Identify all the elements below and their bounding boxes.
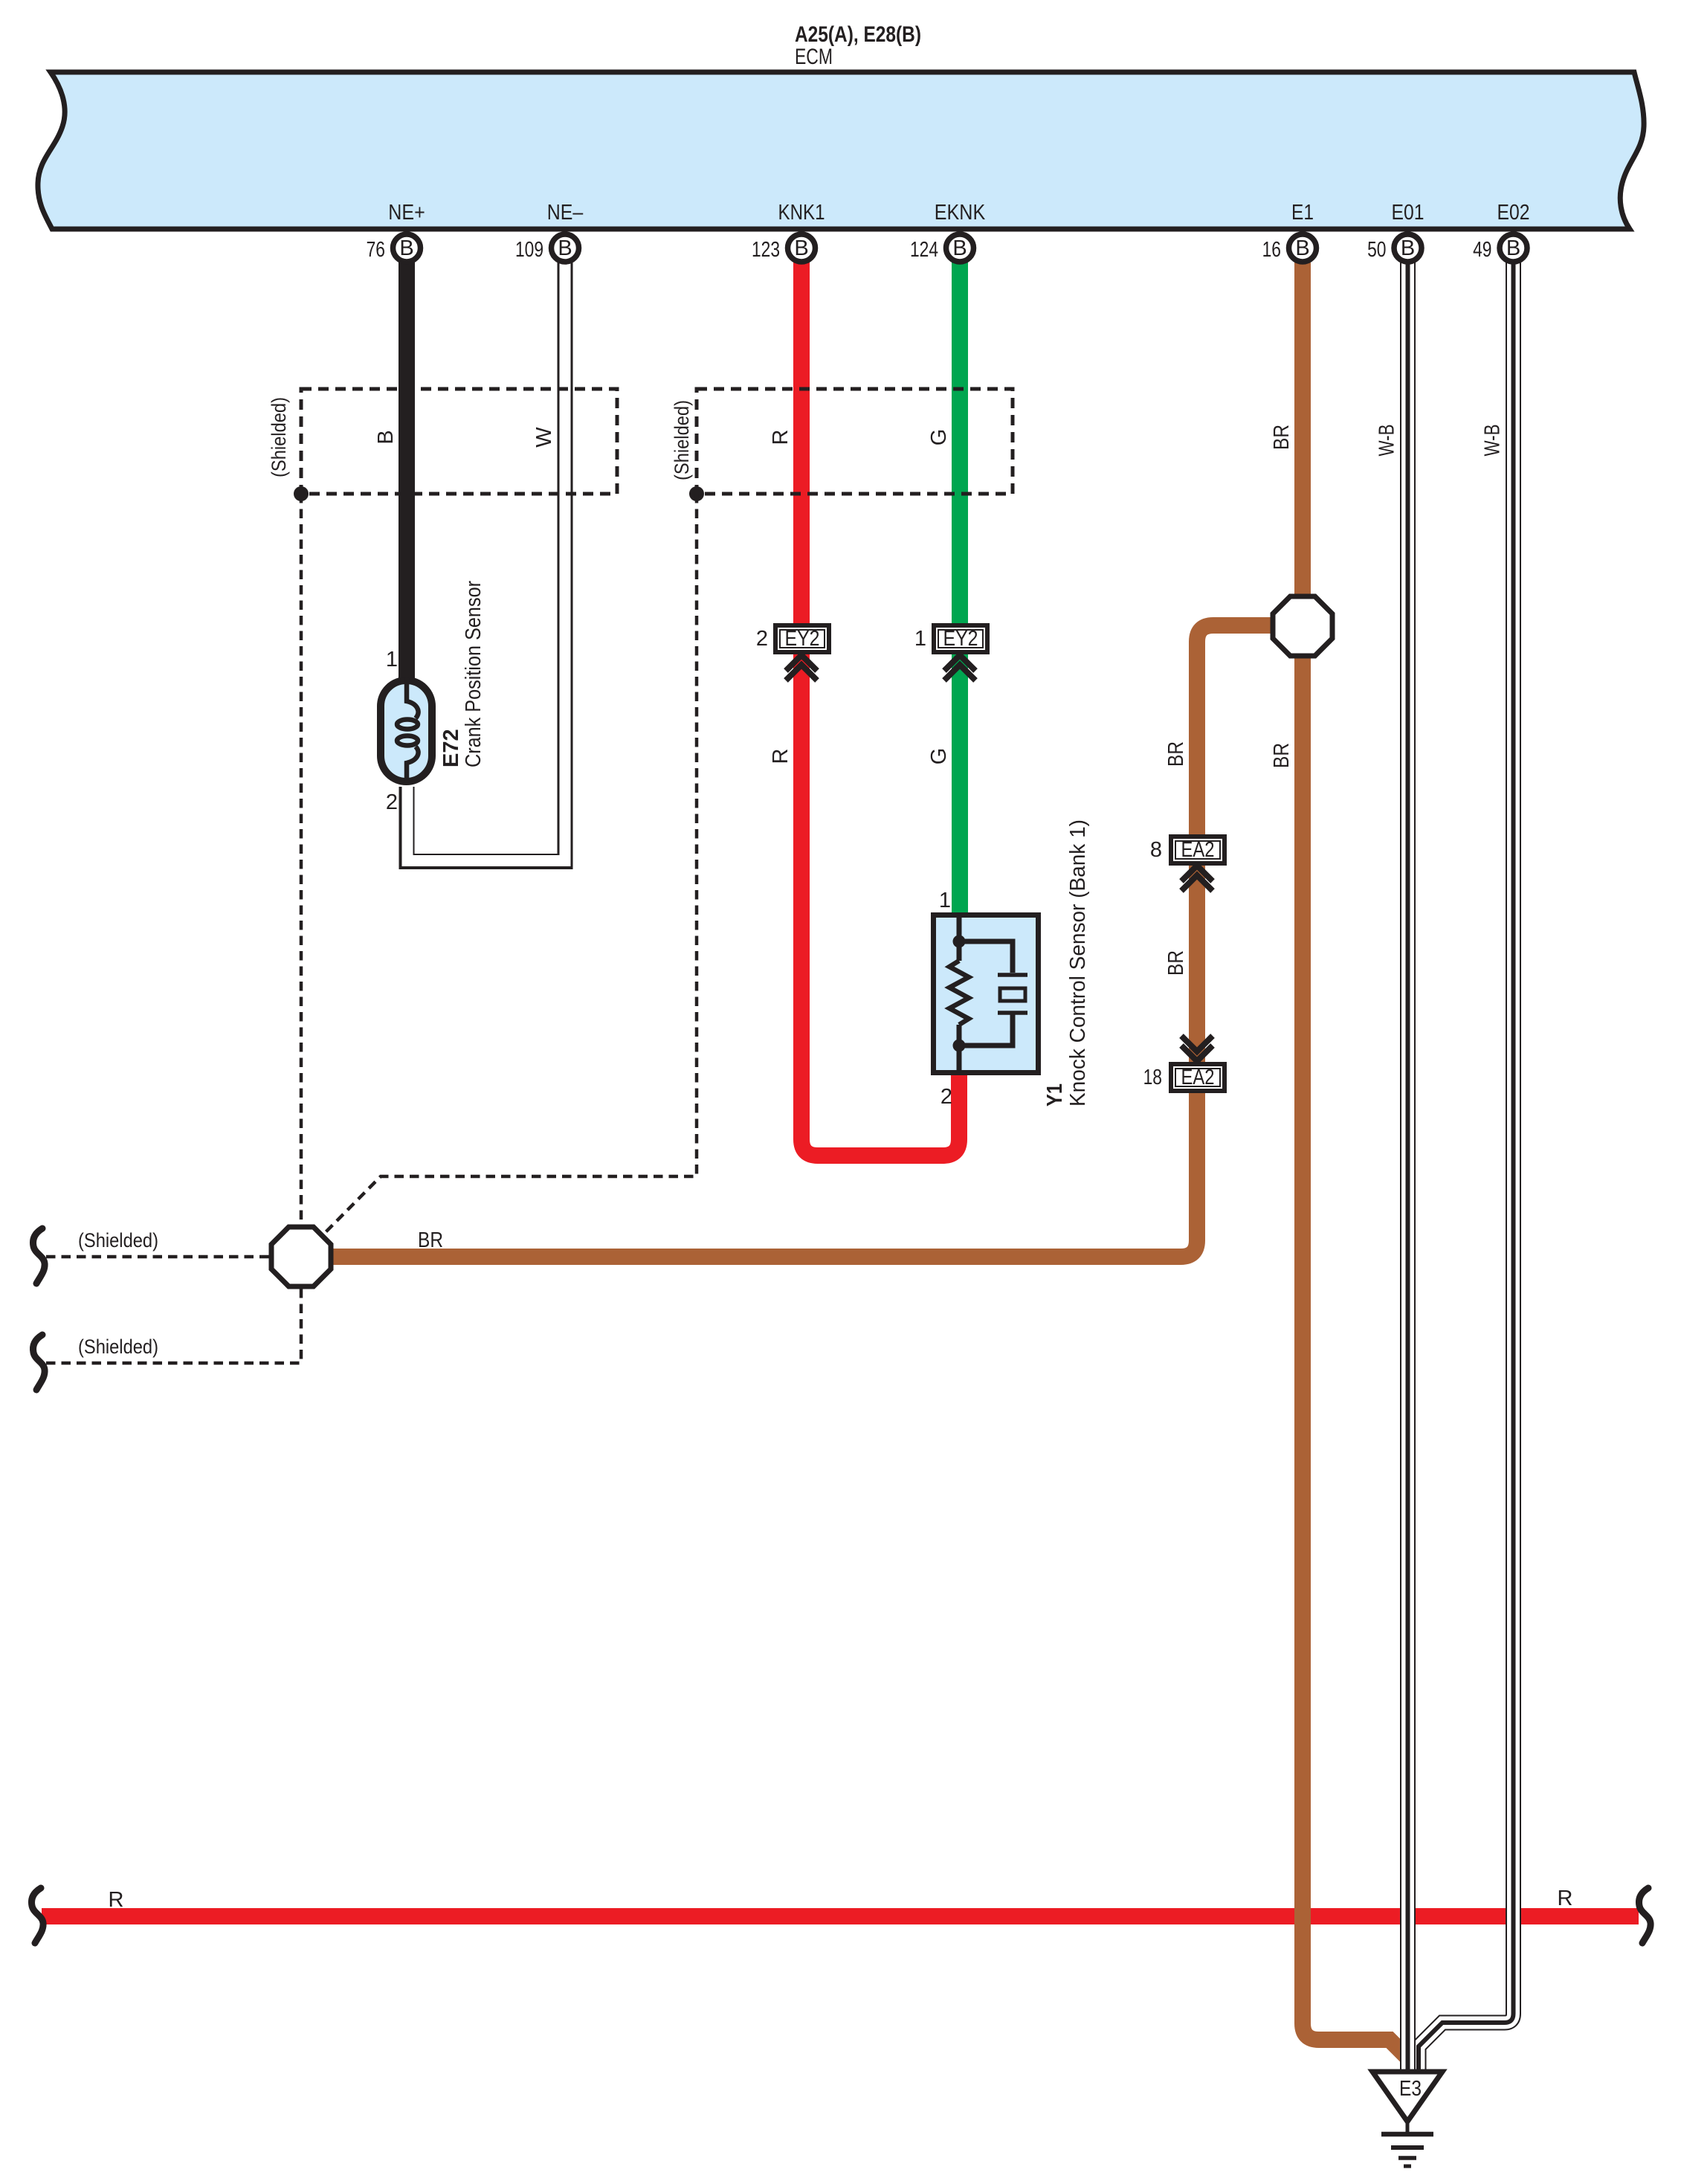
svg-text:EY2: EY2 <box>943 627 978 651</box>
svg-text:B: B <box>1295 236 1309 260</box>
ground bars <box>1381 2132 1433 2137</box>
shield box 1 (dashed) around B and W wires <box>301 389 617 494</box>
svg-text:EKNK: EKNK <box>935 201 986 225</box>
svg-text:B: B <box>1506 236 1520 260</box>
junction dot lower inside Y1 <box>953 1040 966 1052</box>
shield dashed lead upper-left with squiggle <box>46 1255 272 1259</box>
connector 8 EA2 (branch) <box>1150 837 1225 891</box>
svg-text:2: 2 <box>386 790 398 814</box>
wire R (bottom power rail) <box>42 1908 1639 1924</box>
wire E1 BR (brown) main run down to ground area <box>1303 248 1406 2056</box>
wire label G (EKNK) upper <box>927 429 951 446</box>
svg-text:49: 49 <box>1473 238 1491 262</box>
svg-text:(Shielded): (Shielded) <box>268 397 290 477</box>
wire label BR (E1) upper <box>1270 425 1294 450</box>
svg-text:B: B <box>952 236 967 260</box>
svg-text:109: 109 <box>515 238 543 262</box>
node squiggle upper shielded lead <box>33 1228 45 1283</box>
shield drain wire (dashed) from box 1 dot down to octagon <box>300 494 303 1225</box>
wire NE+ B (black) <box>399 248 415 681</box>
internal lead pin1 to pin2 <box>957 915 962 961</box>
pin 50 connector circle B <box>1367 234 1422 262</box>
svg-text:2: 2 <box>940 1085 952 1109</box>
svg-text:1: 1 <box>914 627 926 651</box>
svg-text:8: 8 <box>1150 838 1162 862</box>
svg-text:R: R <box>769 430 793 445</box>
svg-text:G: G <box>927 748 951 765</box>
coil inside E72 <box>407 678 419 718</box>
pin 76 connector circle B <box>367 234 421 262</box>
wire label BR (E1) lower <box>1270 743 1294 768</box>
pin 123 connector circle B <box>752 234 816 262</box>
svg-text:123: 123 <box>752 238 780 262</box>
svg-text:2: 2 <box>756 627 768 651</box>
svg-text:W-B: W-B <box>1481 425 1505 457</box>
svg-text:NE+: NE+ <box>388 201 425 225</box>
svg-text:16: 16 <box>1262 238 1281 262</box>
svg-text:E02: E02 <box>1497 201 1530 225</box>
resistor zigzag inside Y1 <box>949 961 969 1025</box>
svg-text:1: 1 <box>386 648 398 671</box>
svg-text:E72: E72 <box>439 729 463 767</box>
svg-text:BR: BR <box>418 1228 443 1252</box>
svg-text:B: B <box>1401 236 1415 260</box>
svg-text:Knock Control Sensor (Bank 1): Knock Control Sensor (Bank 1) <box>1066 819 1090 1107</box>
svg-text:B: B <box>374 430 398 444</box>
wire label B (NE+) <box>374 430 398 444</box>
pin 49 connector circle B <box>1473 234 1527 262</box>
svg-text:(Shielded): (Shielded) <box>78 1336 158 1358</box>
svg-text:NE–: NE– <box>547 201 584 225</box>
svg-text:B: B <box>794 236 808 260</box>
label E72 / Crank Position Sensor <box>439 581 485 767</box>
svg-text:18: 18 <box>1143 1066 1162 1089</box>
svg-text:E1: E1 <box>1291 201 1314 225</box>
svg-text:W: W <box>532 427 556 448</box>
svg-text:Y1: Y1 <box>1043 1083 1067 1107</box>
wire KNK1 R (red) <box>801 248 959 1156</box>
pin 124 connector circle B <box>910 234 974 262</box>
wire label W-B (E01) <box>1375 425 1399 457</box>
wire BR branch: octagon to EA2 connectors down to horizontal shield run <box>331 625 1303 1257</box>
svg-text:76: 76 <box>367 238 385 262</box>
node octagon junction on E1 (BR) right <box>1273 596 1332 656</box>
svg-text:1: 1 <box>939 889 951 912</box>
connector 1 EY2 (EKNK) <box>914 625 987 680</box>
label (Shielded) box 1 <box>268 397 290 477</box>
svg-text:(Shielded): (Shielded) <box>78 1229 158 1252</box>
wire label G (EKNK) lower <box>927 748 951 765</box>
svg-text:Crank Position Sensor: Crank Position Sensor <box>462 581 485 767</box>
node squiggle right end of R rail <box>1639 1888 1651 1943</box>
svg-text:BR: BR <box>1270 425 1294 450</box>
connector 18 EA2 (branch) <box>1143 1036 1225 1091</box>
wire label R (KNK1) upper <box>769 430 793 445</box>
shield box 2 (dashed) around R and G wires <box>697 389 1013 494</box>
piezo capacitor branch inside Y1 <box>959 941 1013 973</box>
svg-text:E3: E3 <box>1399 2077 1422 2101</box>
svg-text:W-B: W-B <box>1375 425 1399 457</box>
svg-text:(Shielded): (Shielded) <box>671 400 693 480</box>
svg-text:A25(A), E28(B): A25(A), E28(B) <box>795 22 921 47</box>
svg-text:E01: E01 <box>1392 201 1425 225</box>
junction dot upper inside Y1 <box>953 935 966 948</box>
svg-text:R: R <box>769 749 793 764</box>
svg-text:B: B <box>558 236 572 260</box>
svg-text:B: B <box>399 236 413 260</box>
svg-text:EA2: EA2 <box>1181 1066 1215 1089</box>
svg-text:124: 124 <box>910 238 938 262</box>
crank position sensor E72 body <box>381 678 432 784</box>
ground E3 triangle <box>1372 2072 1442 2122</box>
wire label W-B (E02) <box>1481 425 1505 457</box>
svg-text:BR: BR <box>1164 950 1188 976</box>
node squiggle lower shielded lead <box>33 1335 45 1390</box>
ECM band <box>38 72 1644 229</box>
wire label R (KNK1) lower <box>769 749 793 764</box>
svg-text:BR: BR <box>1270 743 1294 768</box>
svg-text:R: R <box>109 1888 124 1912</box>
wire EKNK G (green) <box>952 248 968 918</box>
label (Shielded) box 2 <box>671 400 693 480</box>
pin 16 connector circle B <box>1262 234 1317 262</box>
ground stem <box>1406 2122 1410 2134</box>
svg-text:BR: BR <box>1164 741 1188 767</box>
node octagon junction (shield drains / BR) left <box>271 1227 331 1286</box>
svg-text:R: R <box>1558 1887 1573 1910</box>
svg-text:KNK1: KNK1 <box>778 201 825 225</box>
connector 2 EY2 (KNK1) <box>756 625 829 680</box>
junction dot shield box 2 <box>689 486 704 501</box>
wire label W (NE-) <box>532 427 556 448</box>
wire E02 W-B (white with black stripe) <box>1419 248 1514 2072</box>
svg-text:EA2: EA2 <box>1181 838 1215 862</box>
svg-text:G: G <box>927 429 951 446</box>
shield drain wire (dashed) from box 2 dot down, left, diagonal into octagon <box>322 494 697 1236</box>
svg-text:ECM: ECM <box>795 45 833 69</box>
wire E01 W-B (white with black stripe) <box>1400 248 1416 2074</box>
svg-text:EY2: EY2 <box>785 627 820 651</box>
junction dot shield box 1 <box>294 486 309 501</box>
node squiggle left end of R rail <box>32 1888 44 1943</box>
svg-text:50: 50 <box>1367 238 1386 262</box>
label Y1 / Knock Control Sensor (Bank 1) <box>1043 819 1090 1107</box>
wire label BR (branch) upper <box>1164 741 1188 767</box>
wire label BR (branch) lower <box>1164 950 1188 976</box>
pin 109 connector circle B <box>515 234 579 262</box>
knock control sensor Y1 body <box>934 915 1039 1075</box>
wire NE- W (white wire loop to crank sensor pin 2) <box>407 248 565 862</box>
shield dashed lead lower-left with squiggle, up into octagon bottom <box>46 1288 301 1363</box>
